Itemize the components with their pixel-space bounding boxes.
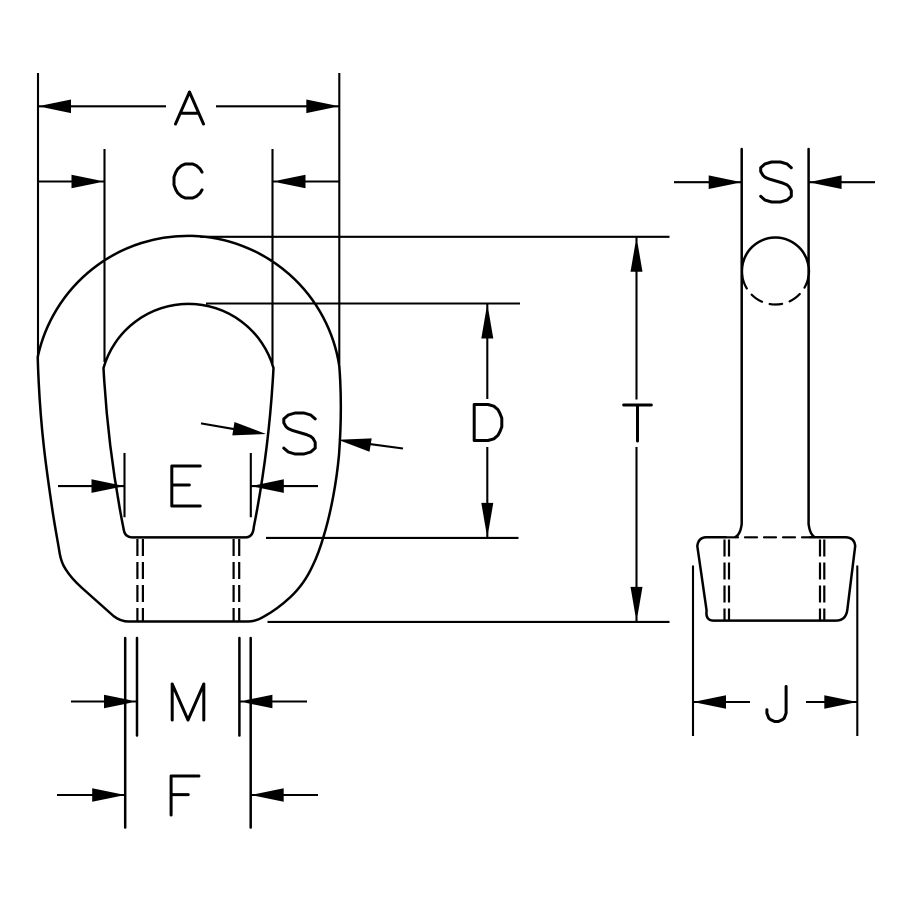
inner eye opening (front view) bbox=[104, 304, 274, 538]
dimension C leader line bbox=[38, 180, 339, 182]
eye shank side edges (side view) bbox=[736, 149, 815, 537]
dimension S (eye section, front view) leader lines bbox=[201, 423, 403, 448]
label E bbox=[172, 466, 200, 506]
label J bbox=[767, 687, 786, 722]
dimension F arrowheads bbox=[92, 788, 284, 802]
dimension D arrowheads bbox=[481, 304, 493, 538]
label S (side view) bbox=[761, 162, 792, 202]
dimension S (side view) arrowheads bbox=[709, 175, 842, 189]
shank major diameter lines (front view) bbox=[125, 638, 251, 828]
label C bbox=[174, 164, 202, 198]
dimension E extension lines bbox=[125, 453, 251, 517]
dimension T extension lines bbox=[200, 237, 670, 622]
dimension F leader line bbox=[57, 794, 318, 796]
dimension S (front view) arrowheads bbox=[232, 422, 371, 452]
dimension C arrowheads bbox=[72, 175, 306, 189]
dimension S (side view) leader line bbox=[674, 181, 875, 183]
eye section circle dashed lower arc (side view) bbox=[742, 277, 808, 305]
label F bbox=[171, 776, 199, 815]
dimension M arrowheads bbox=[104, 695, 272, 709]
dimension A arrowheads bbox=[38, 100, 339, 114]
label M bbox=[172, 684, 204, 720]
dimension D extension lines bbox=[206, 304, 520, 538]
dimension J extension lines bbox=[693, 566, 857, 737]
dimension T leader line bbox=[635, 237, 637, 622]
eye section circle solid upper arc (side view) bbox=[742, 238, 809, 277]
dimension A extension lines bbox=[38, 73, 339, 364]
dimension C extension lines bbox=[105, 149, 273, 366]
label S (front view) bbox=[284, 413, 315, 454]
hidden tapped-hole thread lines (side view) bbox=[725, 540, 825, 621]
dimension E leader line bbox=[58, 485, 318, 487]
dimension E arrowheads bbox=[92, 479, 284, 493]
dimension T arrowheads bbox=[631, 237, 643, 622]
outer eye profile (front view) bbox=[38, 236, 341, 622]
label T bbox=[624, 405, 652, 441]
label D bbox=[474, 405, 502, 441]
shank minor diameter (thread) lines (front view) bbox=[137, 638, 239, 736]
dimension D leader line bbox=[486, 304, 488, 538]
dimension A leader line bbox=[38, 105, 339, 107]
nut body hidden top edge behind shank (side view) bbox=[726, 536, 810, 538]
dimension J leader line bbox=[693, 701, 857, 703]
dimension M leader line bbox=[71, 700, 307, 702]
dimension J arrowheads bbox=[693, 695, 857, 709]
label A bbox=[176, 92, 204, 124]
nut body outline (side view) bbox=[697, 537, 855, 620]
hidden tapped-hole thread lines (front view) bbox=[137, 539, 239, 621]
